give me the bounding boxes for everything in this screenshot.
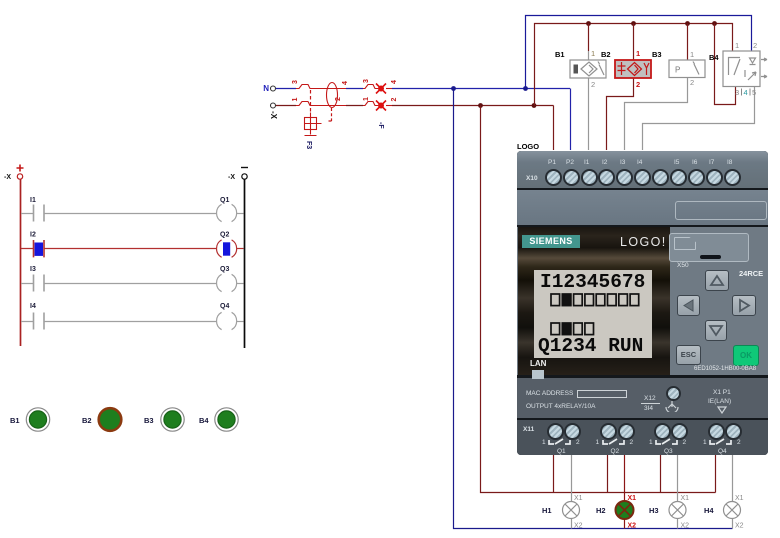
wire red Q2 term2 to lamp H2 [624,455,626,529]
button down [705,320,727,341]
svg-text:X1: X1 [574,495,583,502]
relay Q2 terminals [600,423,617,440]
lamp H3 [649,495,689,530]
svg-text:B2: B2 [601,50,611,59]
functional earth screw [666,386,681,401]
svg-text:X2: X2 [628,523,637,530]
LAN label [530,359,546,368]
rung 4 : contact I4 [21,303,217,330]
node N riser junction [451,86,456,91]
24RCE label [739,269,763,278]
LCD display [534,270,652,358]
LCD input status squares [550,293,645,308]
button left [677,295,700,316]
rung 1 : coil Q1 [217,197,244,222]
svg-text:B3: B3 [144,416,154,425]
svg-text:X2: X2 [574,523,583,530]
svg-text:1: 1 [363,97,370,101]
circuit breaker Q0 pole 2 (L) [292,98,346,106]
svg-text:I1: I1 [30,197,36,204]
SIEMENS logo [522,235,580,248]
node bus B3 junction [685,21,690,26]
svg-text:H2: H2 [596,506,606,515]
node N top-bus junction [523,86,528,91]
lamp H2 (lit) [596,495,636,530]
sensor B3 (pressure switch) [652,50,705,87]
circuit breaker Q0 pole 1 (N) [292,80,346,89]
screw terminal I4 [634,169,651,186]
wire gray B4 pin5 to I4 [643,87,755,151]
part number [694,366,756,372]
wire maroon B2 pin2 to I2 [607,78,634,150]
svg-text:Q3: Q3 [220,266,229,273]
svg-text:Q1: Q1 [220,197,229,204]
wire gray B1 pin2 to I1 [588,78,590,150]
PLC relay output section X11 [517,420,768,455]
rung 2 : coil Q2 (energized) [217,232,244,258]
node bus B2 junction [631,21,636,26]
svg-text:X2: X2 [735,523,744,530]
rung 2 : contact I2 (closed) [21,232,217,258]
wire net L (maroon) to PLC P1 [392,106,554,151]
node bus B4 junction [712,21,717,26]
svg-text:F3: F3 [305,141,312,149]
svg-text:1: 1 [292,98,299,102]
wire gray Q3 term2 to lamp H3 [677,455,679,529]
screw terminal I7 [706,169,723,186]
svg-text:4: 4 [391,80,398,84]
connector label X11 [523,426,534,433]
wire net N (blue) to PLC P2 [570,89,572,151]
svg-text:B2: B2 [82,416,92,425]
screw terminal I3 [616,169,633,186]
svg-text:2: 2 [335,97,342,101]
earth symbol [663,400,681,412]
wire maroon drop to B3 pin1 [687,24,689,61]
wire N blue into breaker [276,88,570,90]
MAC address label and field [526,390,573,397]
connector label X10 [526,175,538,182]
wire maroon Q3 term1 to bus [660,455,662,493]
PLC input terminal section X10 [517,151,768,190]
svg-text:-X: -X [4,174,11,181]
rung 3 : contact I3 [21,266,217,292]
wire maroon Q2 term1 to bus [607,455,609,493]
node L top-bus junction [532,103,537,108]
screw terminal spare [652,169,669,186]
svg-text:4: 4 [744,88,748,97]
pushbutton B4 [199,408,238,431]
wire gray B3 pin2 to I3 [625,78,688,151]
wire maroon main drop left of PLC [481,106,716,493]
node L riser junction [478,103,483,108]
svg-text:H3: H3 [649,506,659,515]
LCD output status squares [550,322,600,337]
PLC MAC / output info section [517,378,768,420]
svg-text:2: 2 [591,80,595,89]
wire L maroon into breaker [276,105,296,107]
svg-text:-F: -F [377,122,384,129]
LAN LED [532,370,544,379]
wire maroon Q4 term1 to bus [715,455,717,493]
output rating label [526,403,595,410]
svg-text:-X: -X [269,111,278,120]
lamp H1 [542,495,583,530]
svg-text:I4: I4 [30,303,36,310]
screw terminal I2 [598,169,615,186]
pushbutton B1 [10,408,50,431]
svg-text:H4: H4 [704,506,714,515]
pushbutton B3 [144,408,184,431]
svg-text:3: 3 [363,79,370,83]
svg-text:H1: H1 [542,506,552,515]
svg-text:X2: X2 [681,523,690,530]
screw terminal P2 [563,169,580,186]
screw terminal I8 [724,169,741,186]
svg-text:B4: B4 [709,53,719,62]
terminal N [263,84,275,93]
relay Q1 terminals [547,423,564,440]
svg-text:B1: B1 [10,416,20,425]
svg-text:Q4: Q4 [220,303,229,310]
node bus B1 junction [586,21,591,26]
svg-text:2: 2 [753,41,757,50]
sensor B4 (light barrier) [709,41,767,97]
screw terminal P1 [545,169,562,186]
wire gray Q1 term2 to lamp H1 [571,455,573,529]
screw terminal I5 [670,169,687,186]
button ESC [676,345,701,365]
svg-text:1: 1 [591,49,595,58]
rung 4 : coil Q4 [217,303,244,330]
svg-text:X1: X1 [735,495,744,502]
fuse -F pole 1 (N) [363,79,398,94]
svg-text:Q2: Q2 [220,232,229,239]
fuse -F pole 2 (L) [363,97,398,129]
card slot panel [669,233,749,262]
svg-text:X1: X1 [681,495,690,502]
PLC module body [517,151,768,455]
svg-text:2: 2 [690,78,694,87]
svg-text:-X: -X [228,174,235,181]
wire gray stub B1 pin1 [588,51,590,60]
wire L maroon breaker to fuse [346,105,363,107]
wire maroon drop to B2 pin1 [633,24,635,61]
svg-text:B4: B4 [199,416,209,425]
svg-text:B1: B1 [555,50,565,59]
svg-text:1: 1 [636,49,640,58]
button up [705,270,729,291]
connector label X12 3/4 [644,395,656,402]
rung 1 : contact I1 [21,197,217,222]
svg-text:1: 1 [735,41,739,50]
thermal element F3 [305,113,322,150]
button OK (green) [733,345,759,366]
relay Q4 terminals [708,423,725,440]
svg-text:2: 2 [636,80,640,89]
PLC face section [517,227,768,378]
wire maroon B4 pin3 loop [715,24,736,105]
svg-text:N: N [263,84,269,93]
sensor B2 (proximity switch, active) [601,49,651,89]
wire blue top bus to B4 pin2 [526,16,752,89]
svg-text:2: 2 [391,98,398,102]
screw terminal I6 [688,169,705,186]
wire maroon drop to B1 pin1 [588,24,590,52]
svg-text:5: 5 [752,88,756,97]
breaker body ellipse [327,81,350,108]
wire gray Q4 term2 to lamp H4 [732,455,734,529]
PLC upper strip with module slot [517,190,768,227]
breaker trip link dashes [327,108,332,121]
screw terminal I1 [581,169,598,186]
svg-text:I3: I3 [30,266,36,273]
svg-text:B3: B3 [652,50,662,59]
ladder right rail + terminal [228,168,248,349]
svg-text:3: 3 [292,80,299,84]
X1 P1 / IE(LAN) port label [713,389,731,396]
wire maroon top bus to B4 pin1 [535,24,733,106]
svg-text:X1: X1 [628,495,637,502]
wire blue main drop left of PLC [454,89,733,529]
expansion slot recess [675,201,767,220]
pin labels P1 P2 I1-I8 [548,159,556,166]
svg-text:3: 3 [735,88,739,97]
PLC LOGO! device tag [517,142,539,151]
wire maroon Q1 term1 to bus [553,455,555,493]
svg-text:4: 4 [342,81,349,85]
terminal L -X [269,103,278,120]
svg-text:I2: I2 [30,232,36,239]
button right [732,295,756,316]
rung 3 : coil Q3 [217,266,244,292]
lamp H4 [704,495,744,530]
pushbutton B2 (pressed) [82,408,121,431]
ladder left rail + terminal [4,165,24,347]
LOGO! wordmark [620,235,667,249]
X50 label [677,262,689,269]
svg-text:1: 1 [690,50,694,59]
svg-text:P: P [675,66,680,75]
sensor B1 (proximity switch) [555,49,606,89]
breaker mechanical link (dashed) [310,90,312,113]
relay Q3 terminals [654,423,671,440]
